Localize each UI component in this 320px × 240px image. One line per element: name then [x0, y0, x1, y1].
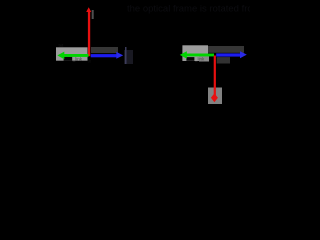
frame1 dim tall box left sliver — [125, 47, 127, 64]
svg-text:the optical frame is rotated f: the optical frame is rotated from body — [127, 4, 250, 15]
frame2 x-axis arrow (red, down) — [211, 56, 218, 103]
frame1 dim tall box right of z-arrowhead — [124, 50, 133, 64]
frame1 dim sliver beside x-arrowhead — [92, 10, 94, 19]
node frame1 label box — [56, 47, 88, 60]
frame2 label box around x-arrowhead — [208, 88, 222, 105]
frame2 dim box above z-arrow — [208, 46, 244, 53]
frame1 z-axis arrow (blue, right) — [91, 52, 124, 59]
frame1 dim box above z-arrow — [91, 47, 118, 53]
node frame2 label box — [182, 45, 208, 61]
svg-text:_link: _link — [194, 57, 205, 62]
frame1 y-axis arrow (green, left) — [57, 52, 88, 60]
frame2 label text blob — [186, 57, 194, 61]
frame1 label text blob — [64, 57, 73, 61]
svg-text:_link: _link — [72, 56, 83, 61]
frame2 y-axis arrow (green, left) — [180, 51, 214, 58]
svg-text:txt: txt — [59, 43, 65, 48]
frame2 label box right extension — [199, 55, 209, 62]
frame2 dim box below z-arrow — [217, 57, 230, 63]
frame2 z-axis arrow (blue, right) — [216, 51, 247, 58]
frame1 x-axis arrow (red, up) — [86, 7, 91, 56]
